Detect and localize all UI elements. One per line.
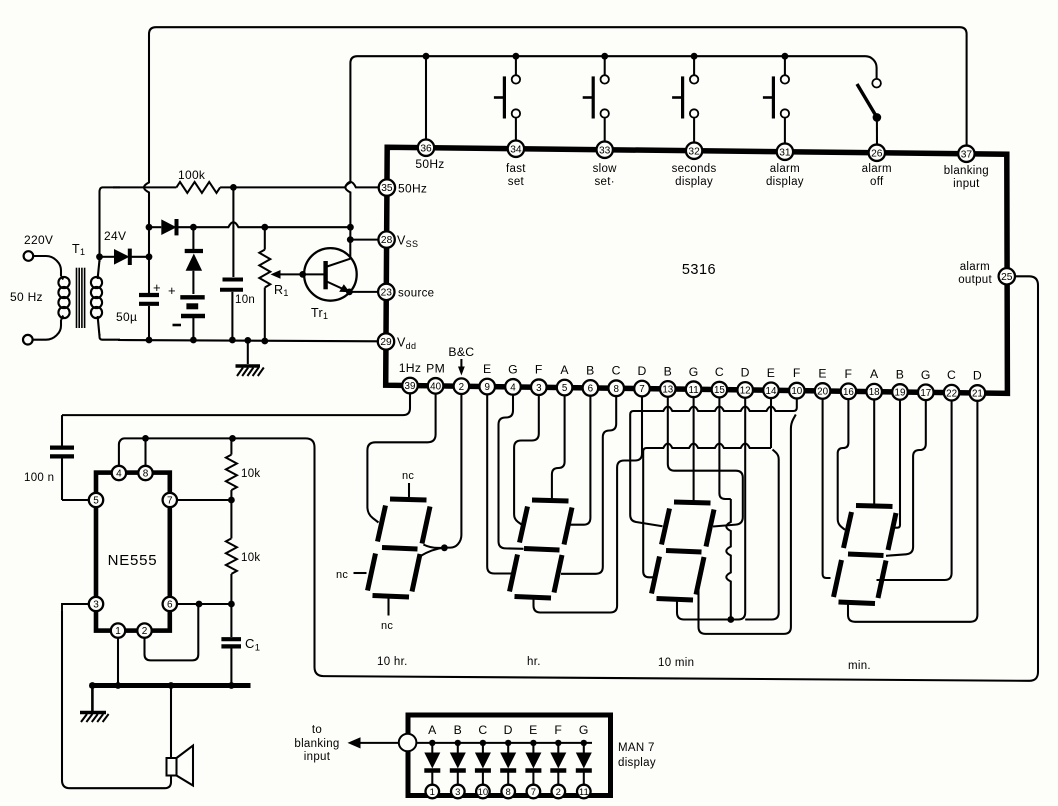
svg-text:+: +: [153, 280, 161, 295]
pin NE555 1: [111, 623, 125, 637]
svg-text:7: 7: [167, 496, 173, 507]
junction dot under display3: [727, 616, 734, 623]
svg-text:B: B: [586, 363, 594, 377]
pin 19: [892, 384, 908, 400]
ground rail NE555: [90, 683, 251, 688]
junction dot rail sw34: [513, 53, 520, 60]
junction node 24V dot: [96, 253, 103, 260]
label battery minus: [173, 324, 182, 327]
pin 2: [454, 378, 470, 394]
svg-text:8: 8: [143, 469, 149, 480]
pin 36: [418, 140, 434, 156]
svg-text:nc: nc: [402, 470, 414, 482]
pin 35: [379, 179, 395, 195]
pin 6: [583, 380, 599, 396]
terminal circle MAN7: [399, 734, 417, 752]
pin 5: [557, 380, 573, 396]
svg-text:10k: 10k: [241, 468, 260, 480]
svg-text:18: 18: [869, 387, 880, 398]
junction dot pin2 node: [196, 601, 203, 608]
wire pin2 B&C drop: [446, 386, 461, 547]
svg-text:31: 31: [779, 147, 791, 158]
wire pin36 riser: [425, 56, 427, 140]
svg-text:50µ: 50µ: [116, 310, 137, 324]
wire ground stem: [247, 340, 249, 364]
svg-text:10 hr.: 10 hr.: [377, 656, 408, 668]
svg-text:+: +: [168, 283, 176, 298]
wire pin19 B display4: [895, 392, 901, 528]
wire speaker top: [170, 686, 172, 759]
junction dot rail pin1: [115, 682, 122, 689]
MAN7 pin 7: [527, 785, 541, 799]
svg-text:4: 4: [510, 382, 516, 393]
svg-text:C: C: [947, 368, 956, 382]
svg-text:9: 9: [484, 382, 489, 393]
svg-text:G: G: [921, 368, 931, 382]
svg-text:PM: PM: [426, 361, 445, 375]
wire 10n top: [232, 187, 234, 277]
pin 4: [505, 379, 521, 395]
svg-text:50 Hz: 50 Hz: [10, 290, 43, 304]
svg-text:14: 14: [766, 386, 777, 397]
IC U2 NE555 box: [96, 473, 170, 631]
pin 3: [531, 379, 547, 395]
svg-text:7: 7: [639, 384, 644, 395]
junction dot battery rail: [190, 337, 197, 344]
svg-text:set: set: [508, 176, 525, 188]
ground symbol main: [236, 366, 264, 376]
wire pin2 loop: [145, 604, 199, 660]
ground symbol NE555: [80, 686, 109, 723]
pin NE555 2: [137, 623, 151, 637]
resistor 10k upper: [230, 438, 232, 454]
svg-text:F: F: [535, 363, 543, 377]
MAN7 diode F: [550, 723, 566, 785]
svg-text:C: C: [478, 723, 487, 737]
resistor 100k zigzag: [176, 182, 220, 193]
svg-text:2: 2: [459, 382, 464, 393]
wire pin22 C display4: [877, 393, 952, 580]
pin 8: [608, 380, 624, 396]
wire 24V vertical to 100k corner: [100, 187, 121, 256]
junction dot rail sw33: [601, 53, 608, 60]
svg-text:22: 22: [946, 388, 957, 399]
svg-text:G: G: [689, 365, 699, 379]
svg-text:display: display: [675, 176, 713, 188]
svg-text:A: A: [428, 723, 437, 737]
pushbutton switch slow-set (pin 33): [583, 56, 609, 148]
svg-text:10k: 10k: [241, 552, 260, 564]
wire pin7 D display2: [534, 389, 643, 613]
junction dot rail pin8: [142, 435, 149, 442]
junction dot rail sw32: [691, 53, 698, 60]
wire 220V top lead: [33, 256, 61, 276]
MAN7 pin 1: [426, 785, 440, 799]
nc stub E display1: [354, 572, 367, 574]
wire NE555 top rail: [146, 437, 233, 439]
wire node-A vertical lower: [148, 205, 150, 227]
svg-text:blanking: blanking: [944, 165, 989, 177]
terminal 50Hz bottom: [23, 335, 33, 345]
pin NE555 4: [112, 466, 126, 480]
pin 14: [763, 382, 779, 398]
svg-text:blanking: blanking: [294, 738, 339, 750]
junction dot emitter: [346, 289, 353, 296]
svg-text:alarm: alarm: [770, 163, 800, 175]
wire rectified row right with hop over 10n column: [193, 222, 350, 227]
capacitor 50u: [139, 295, 159, 340]
nc stub D display1: [387, 599, 389, 616]
wire pin14 drop: [770, 390, 772, 448]
svg-text:fast: fast: [506, 163, 526, 175]
svg-text:15: 15: [714, 385, 725, 396]
wire pin20 E display4: [823, 391, 831, 578]
pin 20: [815, 383, 831, 399]
wire pin16 F display4: [838, 391, 849, 529]
svg-text:G: G: [579, 723, 589, 737]
svg-text:3: 3: [455, 787, 460, 798]
svg-text:B: B: [664, 364, 672, 378]
MAN7 diode D: [500, 723, 516, 785]
svg-text:C: C: [612, 364, 621, 378]
wire pin8 C display2: [561, 388, 616, 574]
svg-text:MAN 7: MAN 7: [618, 742, 655, 754]
svg-text:28: 28: [381, 235, 393, 246]
svg-text:36: 36: [420, 143, 432, 154]
svg-text:to: to: [312, 724, 322, 736]
svg-text:17: 17: [920, 388, 931, 399]
MAN7 diode B: [450, 723, 466, 785]
wire emitter to pin 23: [349, 291, 379, 293]
svg-text:11: 11: [579, 787, 589, 798]
pin 33: [597, 142, 613, 158]
svg-text:34: 34: [510, 144, 522, 155]
wire top rail from node-A to blanking input pin 37: [149, 27, 967, 170]
wire 1Hz vertical to 100n: [61, 415, 63, 445]
svg-text:3: 3: [93, 600, 99, 611]
junction dot pin6 node: [228, 601, 235, 608]
junction dot B&C: [441, 544, 448, 551]
junction dot rect row left: [146, 224, 153, 231]
pin 12: [737, 382, 753, 398]
svg-text:2: 2: [142, 626, 148, 637]
pin 11: [686, 381, 702, 397]
pin 28: [378, 231, 394, 247]
wire pin10 F display3: [637, 407, 790, 412]
pin 29: [378, 333, 394, 349]
svg-text:D: D: [637, 364, 646, 378]
potentiometer R1 wiper arrow: [271, 270, 303, 279]
wire 100n to pin5: [62, 499, 89, 501]
pin NE555 8: [138, 466, 152, 480]
svg-text:26: 26: [871, 148, 883, 159]
wire 220V bottom lead: [33, 320, 61, 340]
svg-text:37: 37: [961, 149, 973, 160]
svg-text:3: 3: [536, 383, 542, 394]
terminal 220V top: [24, 251, 34, 261]
wire pin6 to C1 node: [177, 603, 231, 605]
wire pin40 PM to display1: [367, 386, 435, 523]
junction dot collector vss: [347, 236, 354, 243]
svg-text:12: 12: [740, 386, 751, 397]
svg-text:10: 10: [791, 386, 802, 397]
svg-text:D: D: [741, 365, 750, 379]
svg-text:5: 5: [562, 383, 568, 394]
MAN7 diode A: [424, 723, 440, 785]
MAN7 diode E: [525, 723, 541, 785]
svg-text:10 min: 10 min: [658, 657, 694, 669]
wire VSS vertical hop over 50Hz line: [345, 170, 350, 227]
wire pin1 drop: [117, 638, 119, 686]
svg-text:6: 6: [588, 383, 594, 394]
wire B&C to segment B: [423, 545, 444, 548]
junction dot rect row zener: [190, 224, 197, 231]
svg-text:set·: set·: [595, 176, 615, 188]
junction dot R1 rail: [261, 338, 268, 345]
wire rectified row left: [149, 226, 161, 228]
junction dot 10n rail: [229, 337, 236, 344]
speaker LS1: [167, 746, 194, 786]
wire pin18 A display4: [873, 392, 875, 505]
junction dot diode out: [146, 253, 153, 260]
wire pin6 B display2: [571, 388, 591, 525]
wire pin17 G display4: [886, 392, 926, 555]
svg-text:5: 5: [93, 496, 99, 507]
switch alarm-off blade and contact (pin 26): [857, 79, 881, 148]
capacitor C1: [230, 604, 232, 637]
svg-text:B: B: [896, 367, 904, 381]
wire alarm output loop: [233, 276, 1039, 681]
svg-text:1Hz: 1Hz: [399, 361, 422, 375]
wire zener top: [192, 227, 194, 249]
pin 34: [508, 141, 524, 157]
wire secondary bottom to Vdd rail: [100, 334, 121, 340]
nc stub A display1: [408, 483, 410, 497]
wire switch rail (VSS rail): [350, 56, 876, 170]
svg-text:11: 11: [689, 385, 699, 396]
pin 25 alarm output: [999, 268, 1015, 284]
svg-text:off: off: [870, 176, 884, 188]
pin 18: [866, 384, 882, 400]
pin 32: [686, 143, 702, 159]
svg-text:hr.: hr.: [527, 656, 541, 668]
junction dot 50u rail: [146, 337, 153, 344]
transformer T1 primary coil: [58, 276, 69, 320]
diode D1 24V line: [114, 249, 149, 265]
wire pin15 C display3: [719, 390, 730, 499]
junction dot 10k mid: [228, 497, 235, 504]
svg-text:alarm: alarm: [862, 163, 892, 175]
svg-text:C: C: [715, 365, 724, 379]
svg-text:E: E: [818, 366, 826, 380]
pin 22: [944, 385, 960, 401]
junction dot rail spk: [168, 682, 175, 689]
junction dot 100k/10n: [230, 184, 237, 191]
junction dot rail C1: [228, 682, 235, 689]
wire pin14 E display3: [650, 444, 771, 449]
junction dot rail sw31: [782, 53, 789, 60]
svg-text:29: 29: [380, 337, 392, 348]
wire pin4 G display2: [499, 387, 524, 549]
svg-text:F: F: [793, 366, 801, 380]
wire pin8 riser: [144, 438, 146, 466]
svg-text:E: E: [767, 366, 775, 380]
wire pin7 to 10k node: [177, 499, 231, 501]
svg-text:50Hz: 50Hz: [398, 182, 427, 196]
MAN7 pin 3: [451, 785, 465, 799]
svg-text:seconds: seconds: [672, 163, 717, 175]
IC U1 5316 outline: [386, 147, 1008, 393]
display digit hr: [510, 500, 573, 598]
pin 16: [841, 384, 857, 400]
junction dot ground stem: [244, 337, 251, 344]
pin 10: [789, 383, 805, 399]
junction dot rail gnd: [89, 682, 96, 689]
transformer T1 secondary coil: [91, 260, 102, 336]
svg-text:G: G: [508, 362, 518, 376]
pin 39: [402, 378, 418, 394]
wire pin11 A display3: [693, 389, 695, 501]
junction dot rail 10k: [229, 435, 236, 442]
pushbutton switch seconds-display (pin 32): [672, 56, 698, 148]
arrow to blanking input: [348, 737, 399, 748]
svg-text:slow: slow: [593, 163, 618, 175]
MAN7 pin 10: [476, 785, 490, 799]
wire pin9 E display2: [487, 387, 513, 574]
wire pin3 F display2: [514, 387, 539, 524]
svg-text:input: input: [304, 751, 331, 763]
svg-text:39: 39: [405, 381, 416, 392]
svg-text:A: A: [870, 367, 879, 381]
transformer T1 core: [77, 268, 85, 328]
pin 40: [428, 378, 444, 394]
MAN7 box: [408, 715, 611, 796]
svg-text:35: 35: [381, 183, 393, 194]
MAN7 anode bus: [416, 742, 592, 744]
svg-text:16: 16: [843, 387, 854, 398]
svg-text:220V: 220V: [24, 233, 53, 247]
svg-text:display: display: [618, 757, 656, 769]
svg-text:1: 1: [115, 626, 121, 637]
pin 7: [634, 381, 650, 397]
pin 26: [869, 145, 885, 161]
svg-text:8: 8: [506, 787, 511, 798]
pin 13: [660, 381, 676, 397]
svg-text:alarm: alarm: [960, 261, 990, 273]
wire speaker bottom loop: [62, 611, 171, 788]
battery B1: [180, 297, 205, 340]
svg-text:source: source: [398, 288, 434, 300]
wire pin39 1Hz to NE555 area: [62, 386, 410, 416]
wire 50Hz line to pin 35 with hop over VSS vertical: [220, 182, 379, 188]
MAN7 diode C: [475, 723, 491, 785]
svg-text:6: 6: [167, 600, 173, 611]
svg-text:33: 33: [599, 145, 611, 156]
svg-text:50Hz: 50Hz: [415, 157, 444, 171]
wire 24V node to 50u cap: [148, 227, 150, 293]
wire 24V diode input: [100, 256, 115, 258]
display digit 10min: [652, 502, 715, 600]
svg-text:F: F: [554, 723, 562, 737]
svg-text:7: 7: [531, 787, 536, 798]
svg-text:100k: 100k: [178, 168, 206, 182]
svg-text:100 n: 100 n: [24, 472, 54, 484]
junction dot rail pin36: [423, 53, 430, 60]
pin 23: [378, 284, 394, 300]
svg-text:32: 32: [688, 146, 700, 157]
pin 9: [479, 379, 495, 395]
svg-text:40: 40: [430, 381, 441, 392]
svg-text:F: F: [845, 367, 853, 381]
svg-text:1: 1: [430, 787, 435, 798]
svg-text:13: 13: [662, 385, 673, 396]
wire VSS to pin 28: [350, 239, 379, 241]
MAN7 pin 11: [577, 785, 591, 799]
svg-text:25: 25: [1001, 272, 1013, 283]
svg-text:21: 21: [972, 389, 983, 400]
svg-text:10: 10: [478, 787, 489, 798]
pin 37: [958, 146, 974, 162]
wire 50Hz line left part: [113, 186, 176, 188]
wire R1 bottom: [264, 288, 266, 342]
pin NE555 3: [89, 597, 103, 611]
junction dot rect row R1: [261, 224, 268, 231]
wire pin21 D display4: [848, 393, 977, 622]
svg-text:D: D: [504, 723, 513, 737]
svg-text:nc: nc: [381, 620, 393, 632]
wire pin3 to speaker loop: [62, 604, 89, 611]
wire collector riser: [349, 240, 351, 259]
svg-text:B&C: B&C: [448, 345, 474, 359]
wire secondary top to 24V node: [98, 257, 100, 262]
svg-text:A: A: [560, 363, 569, 377]
wire node-A vertical hop over 50Hz line: [144, 170, 149, 205]
junction dot base wiper: [299, 271, 306, 278]
svg-text:display: display: [766, 176, 804, 188]
pin NE555 6: [163, 597, 177, 611]
wire B&C to segment C: [421, 548, 445, 556]
pin 31: [777, 144, 793, 160]
svg-text:2: 2: [556, 787, 561, 798]
transistor Tr1: [303, 248, 357, 301]
wire pin12 D display3: [677, 390, 745, 620]
wire Vdd rail: [118, 340, 379, 341]
svg-text:NE555: NE555: [108, 552, 158, 569]
MAN7 diode G: [576, 723, 592, 785]
svg-text:B: B: [454, 723, 462, 737]
pin 17: [918, 385, 934, 401]
svg-text:23: 23: [381, 288, 393, 299]
pin NE555 7: [163, 493, 177, 507]
capacitor 100n: [50, 448, 74, 500]
display digit min: [834, 506, 897, 604]
svg-text:20: 20: [817, 387, 828, 398]
pin 15: [712, 382, 728, 398]
svg-text:19: 19: [895, 388, 906, 399]
svg-text:E: E: [529, 723, 537, 737]
capacitor 10n: [220, 280, 243, 341]
svg-text:5316: 5316: [682, 262, 716, 278]
diode D2 top row: [161, 219, 193, 235]
svg-text:8: 8: [613, 384, 619, 395]
svg-text:D: D: [973, 369, 982, 383]
display digit 10hr: [368, 499, 431, 597]
wire pin13 B display3: [668, 389, 743, 527]
pin NE555 5: [89, 493, 103, 507]
pin 21: [970, 385, 986, 401]
wire R1 top: [264, 227, 266, 249]
svg-text:24V: 24V: [104, 229, 126, 243]
